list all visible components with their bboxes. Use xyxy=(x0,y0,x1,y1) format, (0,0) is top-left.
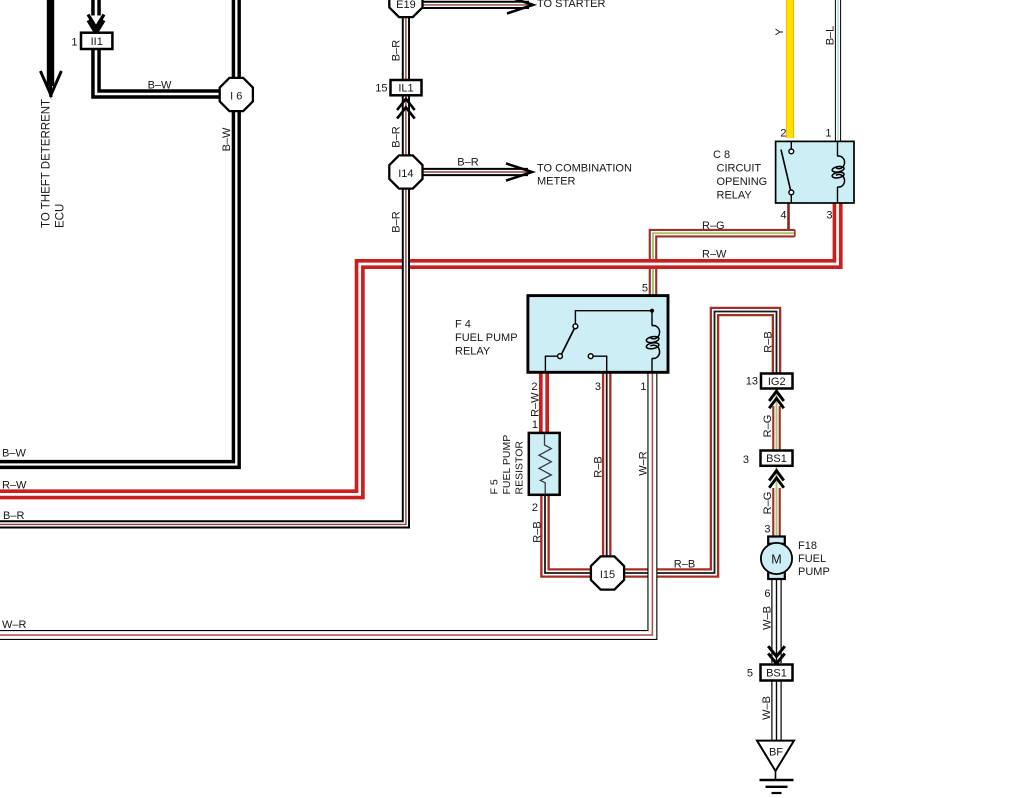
resistor F5 zigzag element xyxy=(539,434,551,495)
pin number 1 at F4 xyxy=(640,381,646,393)
svg-text:15: 15 xyxy=(375,83,387,95)
label METER xyxy=(537,176,576,188)
svg-text:FUEL: FUEL xyxy=(798,553,826,565)
svg-text:2: 2 xyxy=(531,381,537,393)
svg-text:TO THEFT DETERRENT: TO THEFT DETERRENT xyxy=(41,99,53,228)
connector BS1 pin 5 xyxy=(761,665,793,681)
wire R-W from C8 pin 3 down, left, down, left to page edge xyxy=(0,203,838,494)
pin number 15 at IL1 xyxy=(375,83,387,95)
label CIRCUIT xyxy=(717,163,762,175)
label F 5 rotated xyxy=(489,479,501,494)
connector II1 pin 1 xyxy=(81,33,112,49)
wire R-G from C8 pin 4 left then down to F4 pin 5 xyxy=(653,233,795,296)
wire R-B from F4 pin 3 down to junction I15 xyxy=(602,372,612,559)
svg-text:FUEL PUMP: FUEL PUMP xyxy=(501,435,513,495)
pin number 2 at C8 xyxy=(780,128,786,140)
svg-text:3: 3 xyxy=(595,381,601,393)
pin number 3 at BS1 xyxy=(743,454,749,466)
svg-text:PUMP: PUMP xyxy=(798,566,830,578)
svg-text:W–R: W–R xyxy=(638,451,650,476)
svg-text:ECU: ECU xyxy=(55,204,67,228)
label W-R rotated at F4 pin 1 wire xyxy=(638,451,650,476)
label ECU rotated xyxy=(55,204,67,228)
pin number 5 at BS1 xyxy=(747,668,753,680)
svg-text:IG2: IG2 xyxy=(768,376,786,388)
svg-text:FUEL PUMP: FUEL PUMP xyxy=(455,332,518,344)
label R-W at left edge xyxy=(2,480,27,492)
relay F4 coil leads xyxy=(651,312,653,372)
svg-text:1: 1 xyxy=(825,128,831,140)
wire B-R from junction E19 right to starter arrow xyxy=(422,1,530,9)
label B-W rotated below I6 xyxy=(221,127,233,151)
arrowhead to starter xyxy=(507,0,533,14)
junction E19 xyxy=(389,0,422,17)
connector BS1 pin 3 xyxy=(761,451,793,466)
svg-text:RELAY: RELAY xyxy=(717,190,753,202)
pin number 2 at F4 xyxy=(531,381,537,393)
wire B-R from junction E19 down to connector IL1 xyxy=(402,14,410,81)
label TO COMBINATION xyxy=(537,163,632,175)
label F18 xyxy=(798,540,817,552)
ground symbol xyxy=(760,769,794,793)
resistor F5 box xyxy=(529,433,560,495)
svg-text:R–B: R–B xyxy=(674,559,695,571)
wire R-G from IG2 chevrons down to BS1 xyxy=(772,406,781,451)
pin number 6 at F18 xyxy=(764,588,770,600)
label R-B rotated below F5 xyxy=(532,521,544,542)
pin number 4 at C8 xyxy=(780,210,786,222)
label F 4 xyxy=(455,319,471,331)
label B-L rotated xyxy=(825,26,837,46)
svg-text:1: 1 xyxy=(532,419,538,431)
label R-B rotated at IG2 riser xyxy=(763,331,775,352)
wire B-W from II1 down then right to junction I6 xyxy=(96,49,222,94)
label PUMP of F18 xyxy=(798,566,830,578)
pin number 1 at II1 xyxy=(71,37,77,49)
svg-text:BS1: BS1 xyxy=(766,668,787,680)
svg-text:M: M xyxy=(771,552,781,566)
label W-B rotated above BF xyxy=(761,696,773,720)
svg-text:5: 5 xyxy=(747,668,753,680)
svg-text:W–B: W–B xyxy=(761,696,773,720)
svg-text:C 8: C 8 xyxy=(713,149,730,161)
label TO STARTER xyxy=(537,0,606,10)
svg-text:B–R: B–R xyxy=(391,211,403,232)
wire Y into C8 pin 2 xyxy=(786,0,794,138)
svg-text:BS1: BS1 xyxy=(766,453,787,465)
label B-R at left edge xyxy=(3,510,24,522)
svg-text:1: 1 xyxy=(71,37,77,49)
svg-text:4: 4 xyxy=(780,210,786,222)
pin number 2 at F5 xyxy=(532,502,538,514)
wire B-L into C8 pin 1 xyxy=(835,0,841,142)
label R-W rotated at F4 pin 2 xyxy=(530,392,542,417)
wire R-G closed end hook at pin 4 xyxy=(794,230,796,237)
svg-text:B–R: B–R xyxy=(391,40,403,61)
label R-B rotated at F4 pin 3 wire xyxy=(593,456,605,477)
svg-text:I15: I15 xyxy=(600,569,615,581)
svg-text:F 4: F 4 xyxy=(455,319,471,331)
fuel pump F18 connector blocks xyxy=(768,537,785,580)
fuel pump F18 motor circle xyxy=(761,543,792,574)
label FUEL PUMP rotated at F5 xyxy=(501,435,513,495)
pin number 3 at F4 xyxy=(595,381,601,393)
wire W-B from F18 fuel pump pin 6 down to BS1 xyxy=(771,579,781,663)
arrowhead double chevron up into connector IL1 xyxy=(397,99,415,119)
pin number 1 at C8 xyxy=(825,128,831,140)
label B-R between IL1 and I14 xyxy=(391,126,403,147)
svg-text:B–R: B–R xyxy=(391,126,403,147)
junction I15 xyxy=(591,556,624,589)
wire R-B from junction I15 right, up, right, down to IG2 xyxy=(622,312,777,574)
svg-text:R–G: R–G xyxy=(762,415,774,438)
svg-text:F18: F18 xyxy=(798,540,817,552)
wire R-W from F4 pin 2 down to F5 resistor pin 1 xyxy=(539,372,549,434)
label R-B at I15 to IG2 wire xyxy=(674,559,695,571)
arrowhead to combination meter xyxy=(506,163,532,180)
label B-R to combination meter xyxy=(457,157,478,169)
wire R-G from BS1 chevrons down to F18 fuel pump pin 3 xyxy=(772,488,781,537)
svg-text:E19: E19 xyxy=(396,0,416,11)
svg-text:B–R: B–R xyxy=(457,157,478,169)
svg-text:1: 1 xyxy=(640,381,646,393)
label B-W at II1-I6 wire xyxy=(148,80,172,92)
pin number 1 at F5 xyxy=(532,419,538,431)
svg-text:METER: METER xyxy=(537,176,576,188)
junction I6 xyxy=(220,78,253,111)
arrowhead double chevron up into IG2 xyxy=(769,391,784,408)
wire R-B from F5 pin 2 down then right to junction I15 xyxy=(545,494,593,573)
svg-text:B–R: B–R xyxy=(3,510,24,522)
relay F4 coil xyxy=(646,326,660,359)
label C 8 xyxy=(713,149,730,161)
label W-R at left edge xyxy=(2,619,27,631)
svg-text:3: 3 xyxy=(826,210,832,222)
label RELAY of F4 xyxy=(455,346,491,358)
relay F4 internal node dot xyxy=(650,309,654,313)
svg-text:2: 2 xyxy=(780,128,786,140)
svg-text:RELAY: RELAY xyxy=(455,346,491,358)
ground triangle BF xyxy=(757,741,794,771)
svg-text:3: 3 xyxy=(743,454,749,466)
label FUEL PUMP of F4 xyxy=(455,332,518,344)
svg-text:TO COMBINATION: TO COMBINATION xyxy=(537,163,632,175)
svg-text:W–R: W–R xyxy=(2,619,27,631)
junction I14 xyxy=(389,155,422,188)
svg-text:R–W: R–W xyxy=(702,249,727,261)
thick flow arrow to theft deterrent ECU xyxy=(40,0,61,97)
wire R-G stripe at IG2 chevron area xyxy=(774,390,778,406)
svg-text:R–W: R–W xyxy=(530,392,542,417)
relay C8 coil leads xyxy=(837,141,839,203)
pin number 3 at C8 xyxy=(826,210,832,222)
svg-text:IL1: IL1 xyxy=(398,83,413,95)
svg-text:R–W: R–W xyxy=(2,480,27,492)
wire B-W vertical into junction I6 from top xyxy=(232,0,241,80)
label B-R above IL1 xyxy=(391,40,403,61)
svg-text:II1: II1 xyxy=(91,36,103,48)
pin number 13 at IG2 xyxy=(746,376,758,388)
svg-text:R–B: R–B xyxy=(593,456,605,477)
relay C8 box xyxy=(776,141,854,203)
label FUEL of F18 xyxy=(798,553,826,565)
label OPENING xyxy=(717,176,768,188)
wire B-R from junction I14 right to combination meter arrow xyxy=(422,168,528,176)
svg-text:W–B: W–B xyxy=(762,606,774,630)
svg-text:R–B: R–B xyxy=(532,521,544,542)
svg-text:RESISTOR: RESISTOR xyxy=(513,441,525,495)
wire R-G stripe at BS1 chevron area xyxy=(774,466,778,488)
svg-text:F 5: F 5 xyxy=(489,479,501,494)
label B-W at left edge xyxy=(2,448,26,460)
label TO THEFT DETERRENT rotated xyxy=(41,99,53,228)
label R-G rotated above BS1 xyxy=(762,415,774,438)
wire W-B from BS1 down to BF ground triangle xyxy=(771,681,781,742)
svg-text:CIRCUIT: CIRCUIT xyxy=(717,163,762,175)
wire B-R from junction I14 down then left to page edge xyxy=(0,187,406,524)
svg-text:R–G: R–G xyxy=(702,220,725,232)
wire W-R from F4 pin 1 down then left to page edge xyxy=(0,372,652,635)
wire B-W from II1 pin 1 top lead xyxy=(91,0,101,16)
svg-text:6: 6 xyxy=(764,588,770,600)
svg-text:OPENING: OPENING xyxy=(717,176,768,188)
label RELAY of C8 xyxy=(717,190,753,202)
svg-text:B–L: B–L xyxy=(825,26,837,46)
svg-text:2: 2 xyxy=(532,502,538,514)
svg-text:Y: Y xyxy=(774,28,786,36)
pin number 5 at F4 xyxy=(642,283,648,295)
label R-G xyxy=(702,220,725,232)
label B-R below I14 xyxy=(391,211,403,232)
connector IG2 pin 13 xyxy=(761,374,793,389)
relay C8 switch contact xyxy=(781,141,794,203)
svg-text:R–G: R–G xyxy=(762,492,774,515)
wire B-W from junction I6 down then left to page edge xyxy=(0,109,236,465)
label W-B rotated above BS1 xyxy=(762,606,774,630)
relay C8 coil xyxy=(832,156,845,187)
pin number 3 at F18 xyxy=(764,524,770,536)
svg-text:13: 13 xyxy=(746,376,758,388)
arrowhead double chevron up into BS1 pin 3 xyxy=(769,471,784,488)
wire R-G pin 4 stub below C8 xyxy=(787,203,790,232)
relay F4 box xyxy=(528,296,668,373)
svg-text:B–W: B–W xyxy=(148,80,172,92)
svg-text:5: 5 xyxy=(642,283,648,295)
arrowhead double chevron down into connector II1 xyxy=(88,15,104,34)
label R-G rotated above F18 xyxy=(762,492,774,515)
wire B-R from IL1 down to junction I14 xyxy=(402,95,410,157)
label Y rotated xyxy=(774,28,786,36)
relay F4 switch contacts xyxy=(545,311,652,373)
svg-text:B–W: B–W xyxy=(2,448,26,460)
svg-text:I 6: I 6 xyxy=(230,90,242,102)
label R-W xyxy=(702,249,727,261)
label RESISTOR rotated at F5 xyxy=(513,441,525,495)
svg-text:TO STARTER: TO STARTER xyxy=(537,0,606,10)
svg-text:B–W: B–W xyxy=(221,127,233,151)
svg-text:R–B: R–B xyxy=(763,331,775,352)
svg-text:3: 3 xyxy=(764,524,770,536)
svg-text:I14: I14 xyxy=(398,168,413,180)
svg-text:BF: BF xyxy=(769,747,783,759)
connector IL1 pin 15 xyxy=(391,80,422,95)
arrowhead double chevron down into BS1 pin 5 xyxy=(768,646,785,663)
